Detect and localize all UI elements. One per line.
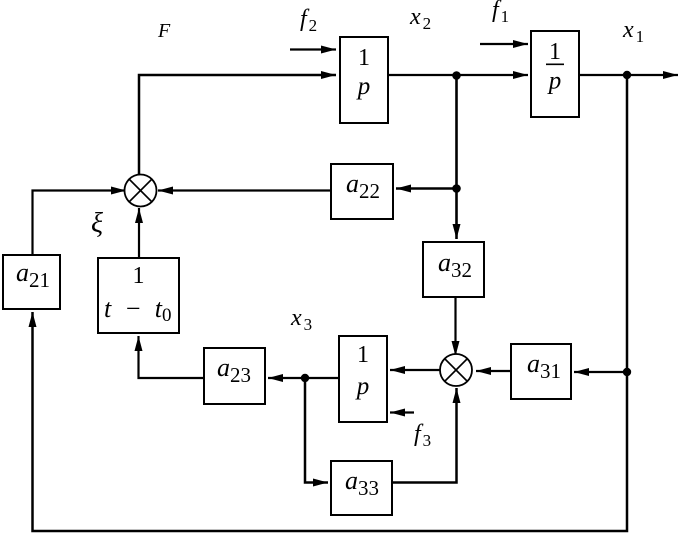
svg-text:x1: x1: [622, 17, 644, 46]
svg-text:1: 1: [357, 342, 369, 368]
svg-text:F: F: [157, 20, 171, 42]
svg-text:p: p: [355, 373, 370, 400]
svg-text:1: 1: [549, 39, 561, 65]
svg-text:p: p: [547, 68, 562, 95]
svg-text:f1: f1: [492, 0, 509, 26]
svg-text:p: p: [356, 73, 371, 100]
svg-text:x2: x2: [409, 4, 431, 33]
svg-text:f3: f3: [414, 421, 431, 450]
svg-text:ξ: ξ: [91, 208, 103, 239]
svg-text:f2: f2: [300, 6, 317, 35]
svg-text:1: 1: [133, 263, 145, 289]
svg-text:x3: x3: [290, 305, 312, 334]
svg-text:1: 1: [358, 45, 370, 71]
